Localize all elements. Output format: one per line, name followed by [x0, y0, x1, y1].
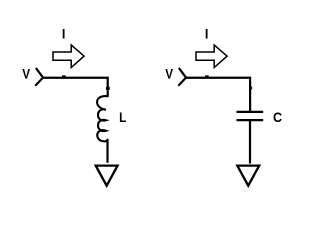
wire: capacitor to ground: [249, 121, 251, 164]
wire: V port to corner, down to inductor: [43, 78, 108, 96]
pin nub on left horizontal wire: [62, 75, 66, 78]
wire: inductor to ground: [106, 140, 108, 163]
junction nub on right vertical wire: [250, 87, 252, 90]
junction dot on left vertical wire: [106, 87, 110, 90]
port arrowhead (left V input): [36, 69, 43, 85]
wire: V port to corner, down to capacitor: [186, 78, 250, 111]
inductor L coil: [97, 96, 108, 141]
svg-text:L: L: [119, 109, 126, 125]
ground (left): [96, 166, 118, 186]
svg-text:I: I: [205, 26, 209, 42]
svg-text:C: C: [273, 109, 282, 125]
ground (right): [237, 166, 259, 186]
current block arrow (left): [53, 45, 84, 68]
capacitor C bottom plate: [237, 119, 264, 121]
port arrowhead (right V input): [179, 69, 186, 85]
pin nub on right horizontal wire: [205, 75, 209, 78]
svg-text:V: V: [22, 66, 30, 82]
capacitor C top plate: [237, 111, 264, 113]
svg-text:I: I: [62, 26, 66, 42]
current block arrow (right): [196, 45, 227, 68]
svg-text:V: V: [165, 66, 173, 82]
